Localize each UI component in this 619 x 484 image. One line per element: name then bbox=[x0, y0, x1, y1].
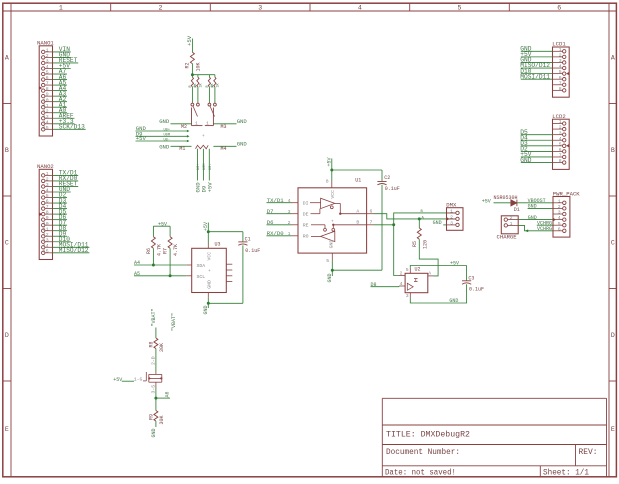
wire D1 to PWR_PACK pin1 bbox=[517, 202, 553, 204]
wire B net down to U2 bbox=[394, 225, 399, 276]
svg-text:GND: GND bbox=[528, 215, 537, 221]
junction A5 R7 bbox=[169, 274, 172, 277]
connector NANO2 bbox=[37, 163, 89, 260]
svg-text:2: 2 bbox=[559, 125, 562, 131]
junction +5V U1 bbox=[330, 169, 333, 172]
svg-text:M4: M4 bbox=[221, 146, 227, 152]
wire Q1 source to junction bbox=[155, 388, 157, 411]
frame column dividers bbox=[110, 3, 112, 11]
svg-text:2: 2 bbox=[159, 4, 163, 11]
svg-text:RO: RO bbox=[303, 233, 309, 239]
svg-text:3: 3 bbox=[559, 58, 562, 64]
resistor R7 bbox=[168, 237, 172, 249]
svg-text:5: 5 bbox=[458, 4, 462, 11]
svg-text:U3: U3 bbox=[215, 242, 221, 248]
svg-text:11: 11 bbox=[43, 226, 49, 232]
connector DMX bbox=[446, 202, 463, 231]
svg-text:4: 4 bbox=[559, 136, 562, 142]
svg-text:R: R bbox=[212, 85, 216, 87]
frame inner border lines bbox=[10, 3, 12, 477]
svg-text:10: 10 bbox=[43, 97, 49, 103]
svg-text:5: 5 bbox=[559, 69, 562, 75]
svg-text:30K: 30K bbox=[159, 415, 165, 424]
resistor R9 bbox=[154, 411, 158, 422]
svg-text:2: 2 bbox=[288, 220, 291, 226]
capacitor C2 bbox=[377, 181, 386, 183]
svg-text:+: + bbox=[208, 269, 211, 274]
wire M4 to GND bbox=[213, 145, 236, 147]
wire R9 to GND bbox=[155, 421, 157, 427]
title block REV divider bbox=[575, 445, 577, 466]
wire A5 to U3 SCL bbox=[134, 275, 186, 277]
svg-text:2: 2 bbox=[558, 204, 561, 210]
svg-text:1: 1 bbox=[559, 47, 562, 53]
svg-text:6: 6 bbox=[46, 75, 49, 81]
wire +5V to D1 bbox=[494, 202, 511, 204]
svg-text:7: 7 bbox=[559, 153, 562, 159]
connector LCD1 bbox=[552, 41, 569, 98]
center switch vertical wires bbox=[197, 149, 199, 181]
transistor Q1 MOSFET bbox=[143, 372, 162, 388]
svg-text:12: 12 bbox=[43, 232, 49, 238]
wire U1 GND bbox=[331, 261, 333, 276]
wire C3 to GND rail under U2 bbox=[410, 284, 466, 303]
svg-text:GND: GND bbox=[433, 220, 442, 226]
svg-text:2-D: 2-D bbox=[151, 356, 157, 365]
svg-text:E: E bbox=[611, 426, 615, 433]
svg-text:2: 2 bbox=[450, 215, 453, 221]
svg-text:4: 4 bbox=[358, 4, 362, 11]
svg-text:REV:: REV: bbox=[579, 447, 598, 457]
svg-text:3: 3 bbox=[559, 130, 562, 136]
svg-text:1-G: 1-G bbox=[134, 377, 143, 383]
resistor R5 termination bbox=[418, 219, 420, 228]
svg-text:TITLE: DMXDebugR2: TITLE: DMXDebugR2 bbox=[386, 430, 470, 440]
svg-text:D6: D6 bbox=[267, 219, 274, 226]
wire GND to M2 bbox=[171, 123, 192, 125]
svg-text:1: 1 bbox=[450, 209, 453, 215]
svg-text:6: 6 bbox=[370, 208, 373, 214]
svg-text:A: A bbox=[356, 209, 359, 215]
net labels at U1 left pins bbox=[267, 202, 292, 204]
svg-text:RX/D0: RX/D0 bbox=[267, 230, 284, 237]
svg-text:C1: C1 bbox=[245, 237, 251, 243]
wire VBAT to R8 bbox=[155, 328, 157, 339]
svg-text:DI: DI bbox=[303, 200, 309, 206]
svg-text:5: 5 bbox=[406, 267, 409, 273]
svg-text:Sheet: 1/1: Sheet: 1/1 bbox=[543, 468, 589, 478]
junction U3 GND bbox=[207, 302, 210, 305]
svg-text:15: 15 bbox=[43, 248, 49, 254]
svg-text:6: 6 bbox=[559, 147, 562, 153]
LCD2 net wires and labels bbox=[521, 134, 553, 136]
wire R5 to U2 A pin bbox=[419, 239, 438, 276]
svg-text:D1: D1 bbox=[514, 207, 520, 213]
svg-text:GND: GND bbox=[237, 118, 248, 125]
nav center wires from left bbox=[136, 130, 188, 132]
wire A4 to U3 SDA bbox=[134, 264, 186, 266]
resistor R8 bbox=[154, 338, 158, 349]
svg-text:10K: 10K bbox=[195, 62, 201, 71]
svg-text:4.7K: 4.7K bbox=[173, 244, 179, 256]
IC U3 bbox=[186, 242, 232, 298]
svg-text:2: 2 bbox=[46, 53, 49, 59]
svg-text:GND: GND bbox=[159, 144, 170, 151]
junction A6 bbox=[154, 397, 157, 400]
svg-text:C3: C3 bbox=[468, 275, 474, 281]
svg-text:1: 1 bbox=[59, 4, 63, 11]
svg-text:B: B bbox=[611, 147, 615, 154]
svg-text:2: 2 bbox=[46, 177, 49, 183]
junction U1 GND bbox=[331, 269, 334, 272]
svg-text:5: 5 bbox=[326, 258, 329, 264]
svg-text:2: 2 bbox=[559, 52, 562, 58]
svg-text:3: 3 bbox=[288, 209, 291, 215]
wire R8 to Q1 drain bbox=[155, 349, 157, 372]
svg-text:C: C bbox=[611, 240, 615, 247]
svg-text:SDA: SDA bbox=[197, 263, 206, 269]
svg-text:3: 3 bbox=[558, 210, 561, 216]
title block Sheet divider bbox=[539, 466, 541, 477]
svg-text:4: 4 bbox=[288, 198, 291, 204]
svg-text:+5V: +5V bbox=[186, 35, 193, 46]
frame row dividers bbox=[3, 103, 11, 105]
svg-text:M1: M1 bbox=[179, 146, 185, 152]
svg-text:5: 5 bbox=[46, 193, 49, 199]
svg-text:D7: D7 bbox=[267, 208, 274, 215]
svg-text:GND: GND bbox=[327, 273, 333, 282]
svg-text:5: 5 bbox=[46, 70, 49, 76]
svg-text:1: 1 bbox=[46, 48, 49, 54]
capacitor C1 bbox=[238, 241, 247, 243]
svg-text:1: 1 bbox=[559, 119, 562, 125]
connector LCD2 bbox=[552, 113, 569, 170]
wire R2 to switch rail bbox=[191, 64, 193, 75]
svg-text:3: 3 bbox=[406, 293, 409, 299]
svg-text:3: 3 bbox=[258, 4, 262, 11]
svg-text:8: 8 bbox=[46, 210, 49, 216]
svg-text:6: 6 bbox=[558, 226, 561, 232]
svg-text:Document Number:: Document Number: bbox=[386, 447, 460, 457]
resistor R2 bbox=[190, 52, 194, 63]
svg-text:+5V: +5V bbox=[136, 135, 147, 142]
wire D8 to U2 bbox=[371, 286, 400, 288]
svg-text:"VBAT": "VBAT" bbox=[171, 313, 177, 331]
svg-text:3: 3 bbox=[450, 221, 453, 227]
svg-text:GND: GND bbox=[203, 305, 209, 314]
center switch actuator zigzag bbox=[196, 145, 209, 149]
svg-text:A: A bbox=[428, 270, 431, 276]
wire GND to M1 bbox=[171, 145, 192, 147]
resistor R6 bbox=[151, 237, 155, 249]
svg-text:8: 8 bbox=[559, 86, 562, 92]
svg-text:+: + bbox=[202, 134, 205, 139]
wire VCHRG to PWR_PACK pin5 bbox=[537, 224, 553, 226]
svg-text:9: 9 bbox=[46, 215, 49, 221]
svg-text:14: 14 bbox=[43, 243, 49, 249]
svg-text:A: A bbox=[611, 55, 615, 62]
title block outline bbox=[382, 397, 606, 399]
wire switch top rail bbox=[192, 74, 215, 76]
svg-text:4: 4 bbox=[46, 64, 49, 70]
svg-text:4.7K: 4.7K bbox=[157, 244, 163, 256]
svg-text:1: 1 bbox=[46, 171, 49, 177]
svg-text:13: 13 bbox=[43, 237, 49, 243]
svg-text:1: 1 bbox=[288, 231, 291, 237]
svg-text:SCL: SCL bbox=[197, 274, 206, 280]
svg-text:6: 6 bbox=[46, 199, 49, 205]
svg-text:1: 1 bbox=[206, 121, 209, 127]
svg-text:A: A bbox=[5, 55, 9, 62]
svg-text:R7: R7 bbox=[163, 248, 169, 254]
svg-text:4: 4 bbox=[46, 188, 49, 194]
svg-text:E: E bbox=[5, 426, 9, 433]
svg-text:10: 10 bbox=[43, 221, 49, 227]
svg-text:M3: M3 bbox=[221, 124, 227, 130]
svg-text:VCC: VCC bbox=[330, 190, 336, 199]
wire +5V to gate bbox=[122, 380, 134, 382]
junction U3 +5V C1 bbox=[207, 230, 210, 233]
wire U3 GND stub bbox=[207, 298, 209, 308]
svg-text:0.1uF: 0.1uF bbox=[469, 286, 484, 292]
svg-text:GND: GND bbox=[329, 240, 335, 249]
svg-text:15: 15 bbox=[43, 125, 49, 131]
svg-text:TX/D1: TX/D1 bbox=[267, 197, 284, 204]
svg-text:4: 4 bbox=[558, 215, 561, 221]
svg-text:9: 9 bbox=[46, 92, 49, 98]
junction A R5 bbox=[418, 217, 421, 220]
svg-text:1: 1 bbox=[558, 198, 561, 204]
svg-text:+: + bbox=[331, 219, 334, 224]
IC U1 RS-485 transceiver bbox=[288, 177, 374, 264]
capacitor C3 bbox=[466, 266, 468, 281]
svg-text:1: 1 bbox=[510, 221, 513, 227]
svg-text:RE: RE bbox=[303, 222, 309, 228]
svg-text:MISO/D12: MISO/D12 bbox=[59, 247, 89, 254]
svg-text:0.1uF: 0.1uF bbox=[245, 248, 260, 254]
svg-text:4: 4 bbox=[400, 281, 403, 287]
svg-text:R: R bbox=[195, 85, 199, 87]
svg-text:U0M: U0M bbox=[164, 134, 170, 138]
svg-text:U2: U2 bbox=[415, 267, 421, 273]
svg-text:GND: GND bbox=[520, 157, 531, 164]
svg-text:12: 12 bbox=[43, 108, 49, 114]
svg-text:3: 3 bbox=[46, 59, 49, 65]
svg-text:GND: GND bbox=[159, 118, 170, 125]
svg-text:2: 2 bbox=[510, 215, 513, 221]
svg-text:8: 8 bbox=[559, 158, 562, 164]
svg-text:M2: M2 bbox=[181, 124, 187, 130]
wire M3 to GND bbox=[213, 123, 236, 125]
wire R6 to A4 net bbox=[152, 248, 154, 265]
switch ladder resistors and wires bbox=[191, 75, 193, 78]
svg-text:5: 5 bbox=[559, 141, 562, 147]
LCD1 net wires and labels bbox=[521, 50, 553, 52]
svg-text:11: 11 bbox=[43, 103, 49, 109]
connector PWR_PACK bbox=[553, 190, 580, 237]
diode D1 NSR0530H bbox=[511, 200, 517, 206]
svg-text:C2: C2 bbox=[384, 175, 390, 181]
svg-text:5: 5 bbox=[558, 221, 561, 227]
svg-text:6: 6 bbox=[557, 4, 561, 11]
svg-text:U0-: U0- bbox=[209, 164, 213, 170]
svg-text:4: 4 bbox=[559, 64, 562, 70]
wire GND to C2 bottom bbox=[332, 269, 382, 271]
svg-text:1: 1 bbox=[195, 121, 198, 127]
wire C2 to GND rail bbox=[381, 185, 383, 270]
svg-text:7: 7 bbox=[46, 204, 49, 210]
svg-text:R6: R6 bbox=[146, 248, 152, 254]
wire +5V to C1 bbox=[208, 231, 243, 233]
svg-text:R: R bbox=[189, 85, 193, 87]
svg-text:14: 14 bbox=[43, 119, 49, 125]
svg-text:U0M: U0M bbox=[203, 164, 207, 170]
svg-text:VCC: VCC bbox=[207, 252, 213, 261]
svg-text:NSR0530H: NSR0530H bbox=[494, 195, 518, 201]
wire A net to DMX bbox=[374, 214, 456, 219]
svg-text:VCHRG: VCHRG bbox=[537, 226, 552, 232]
wire GND to PWR_PACK pin2 bbox=[528, 207, 553, 209]
svg-text:7: 7 bbox=[46, 81, 49, 87]
svg-text:"VBAT": "VBAT" bbox=[151, 308, 157, 326]
svg-text:30K: 30K bbox=[159, 343, 165, 352]
svg-text:7: 7 bbox=[370, 220, 373, 226]
svg-text:R9: R9 bbox=[149, 414, 155, 420]
wire U2 VCC to +5V and C3 bbox=[410, 266, 466, 268]
svg-text:R2: R2 bbox=[185, 62, 191, 68]
svg-text:U1: U1 bbox=[355, 177, 361, 183]
wire A6 stub bbox=[156, 397, 170, 399]
svg-text:8: 8 bbox=[46, 86, 49, 92]
svg-text:2: 2 bbox=[400, 270, 403, 276]
svg-text:SCK/D13: SCK/D13 bbox=[59, 124, 85, 131]
svg-text:R8: R8 bbox=[149, 341, 155, 347]
switch M3 bbox=[205, 103, 217, 126]
svg-text:MOSI/D11: MOSI/D11 bbox=[520, 73, 550, 80]
wire B net to DMX pin1 bbox=[374, 224, 394, 226]
svg-text:GND: GND bbox=[528, 204, 537, 210]
svg-text:0.1uF: 0.1uF bbox=[385, 186, 400, 192]
svg-text:+5V: +5V bbox=[113, 377, 122, 383]
svg-text:D: D bbox=[5, 332, 9, 339]
wire CHARGE pin2 GND to PWR_PACK pin4 bbox=[518, 219, 553, 221]
IC U2 bbox=[399, 267, 434, 300]
svg-text:U0+: U0+ bbox=[197, 164, 201, 170]
wire R7 to A5 net bbox=[169, 248, 171, 275]
svg-text:+5V: +5V bbox=[450, 261, 459, 267]
switch M2 bbox=[191, 103, 203, 126]
svg-text:R: R bbox=[206, 85, 210, 87]
svg-text:CHARGE: CHARGE bbox=[497, 234, 518, 241]
svg-text:U0+: U0+ bbox=[164, 128, 170, 132]
svg-text:B: B bbox=[356, 220, 359, 226]
svg-text:DE: DE bbox=[303, 211, 309, 217]
connector CHARGE bbox=[497, 215, 519, 241]
wire +5V to C2 bbox=[332, 169, 382, 171]
svg-text:7: 7 bbox=[559, 80, 562, 86]
svg-text:D: D bbox=[611, 332, 615, 339]
svg-text:A6: A6 bbox=[164, 391, 170, 397]
svg-text:GND: GND bbox=[207, 280, 213, 289]
svg-text:C: C bbox=[5, 240, 9, 247]
junction A4 R6 bbox=[152, 264, 155, 267]
wire C1 to GND rail bbox=[242, 245, 244, 303]
svg-text:GND: GND bbox=[449, 298, 458, 304]
svg-text:6: 6 bbox=[559, 75, 562, 81]
svg-text:13: 13 bbox=[43, 114, 49, 120]
svg-text:8: 8 bbox=[326, 178, 329, 184]
svg-text:GND: GND bbox=[151, 428, 157, 437]
svg-text:+5V: +5V bbox=[207, 182, 214, 193]
junction switch rail bbox=[191, 73, 194, 76]
svg-text:+5V: +5V bbox=[482, 199, 491, 205]
svg-text:3: 3 bbox=[46, 182, 49, 188]
svg-text:U0-: U0- bbox=[164, 138, 170, 142]
wire CHARGE pin1 to VCHRG pin6 bbox=[518, 225, 553, 230]
svg-text:GND: GND bbox=[237, 141, 248, 148]
connector NANO1 bbox=[37, 40, 86, 136]
svg-text:R5: R5 bbox=[412, 241, 418, 247]
svg-text:Date: not saved!: Date: not saved! bbox=[385, 468, 456, 478]
svg-text:B: B bbox=[5, 147, 9, 154]
svg-text:120: 120 bbox=[422, 240, 428, 249]
